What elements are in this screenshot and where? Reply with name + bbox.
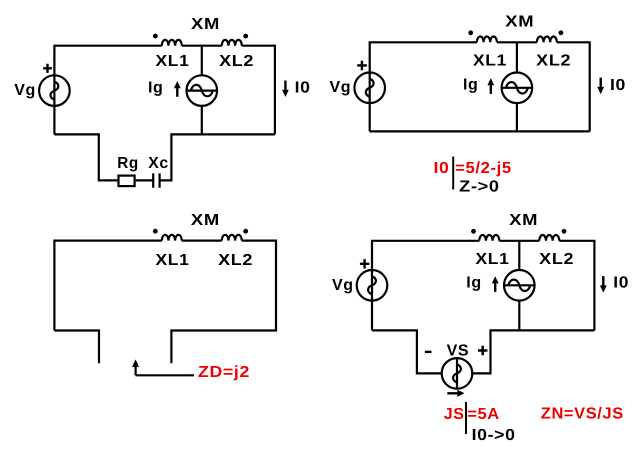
svg-text:Ig: Ig bbox=[463, 76, 478, 93]
svg-text:I0: I0 bbox=[610, 77, 626, 94]
svg-text:=5A: =5A bbox=[467, 406, 500, 423]
svg-text:Vg: Vg bbox=[14, 82, 36, 99]
svg-text:XL1: XL1 bbox=[156, 252, 190, 269]
svg-text:XL1: XL1 bbox=[473, 52, 507, 69]
svg-text:Vg: Vg bbox=[330, 79, 352, 96]
svg-text:I0: I0 bbox=[295, 80, 311, 97]
svg-text:I0->0: I0->0 bbox=[472, 427, 516, 444]
svg-text:XL1: XL1 bbox=[156, 53, 190, 70]
svg-text:XL2: XL2 bbox=[219, 53, 254, 70]
svg-text:XL2: XL2 bbox=[536, 52, 571, 69]
svg-text:XM: XM bbox=[191, 16, 220, 33]
svg-text:=5/2-j5: =5/2-j5 bbox=[455, 160, 512, 177]
svg-text:Ig: Ig bbox=[466, 275, 481, 292]
svg-text:Rg: Rg bbox=[117, 155, 139, 172]
svg-text:I0: I0 bbox=[613, 275, 629, 292]
svg-text:XM: XM bbox=[509, 212, 538, 229]
svg-text:ZD=j2: ZD=j2 bbox=[198, 364, 250, 381]
svg-text:Z->0: Z->0 bbox=[459, 179, 500, 196]
svg-text:I0: I0 bbox=[434, 160, 450, 177]
svg-text:XL2: XL2 bbox=[218, 252, 253, 269]
svg-text:Xc: Xc bbox=[148, 155, 169, 172]
svg-text:XL2: XL2 bbox=[539, 251, 574, 268]
svg-text:XM: XM bbox=[505, 13, 534, 30]
svg-text:Vg: Vg bbox=[332, 277, 354, 294]
svg-text:XL1: XL1 bbox=[476, 251, 510, 268]
svg-text:Ig: Ig bbox=[148, 79, 163, 96]
svg-text:ZN=VS/JS: ZN=VS/JS bbox=[541, 406, 624, 423]
svg-text:VS: VS bbox=[447, 343, 470, 360]
svg-text:JS: JS bbox=[444, 406, 465, 423]
svg-text:XM: XM bbox=[191, 212, 220, 229]
